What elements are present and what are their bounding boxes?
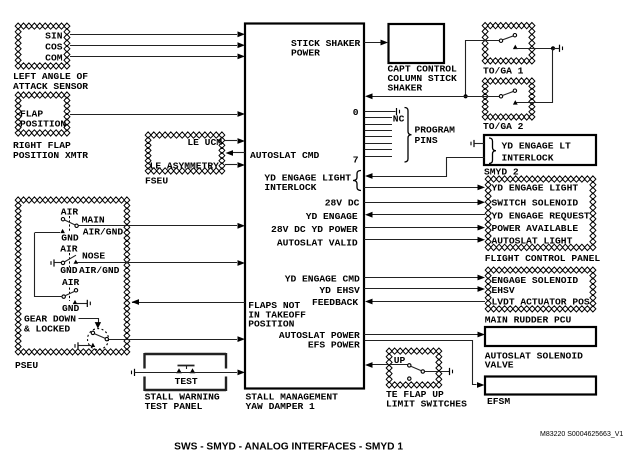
svg-text:TO/GA 2: TO/GA 2 <box>483 121 524 132</box>
svg-text:YD ENGAGE LIGHT: YD ENGAGE LIGHT <box>492 183 579 194</box>
wire 28V DC to FCP switch solenoid <box>364 202 478 204</box>
port smyd2 interlock <box>473 140 475 147</box>
svg-text:SIN: SIN <box>45 31 63 42</box>
svg-text:POSITION XMTR: POSITION XMTR <box>13 150 88 161</box>
wire yd engage light to FCP <box>364 187 478 189</box>
svg-text:ATTACK SENSOR: ATTACK SENSOR <box>13 81 88 92</box>
wire LVDT actuator pos to SMYD1 <box>372 301 485 303</box>
wire TO/GA 1 pole down <box>466 41 500 97</box>
wire MAIN AIR/GND to SMYD1 <box>78 225 237 227</box>
svg-text:NC: NC <box>393 114 405 125</box>
svg-text:AUTOSLAT LIGHT: AUTOSLAT LIGHT <box>492 236 573 247</box>
wire smyd2 interlock stub <box>474 143 484 145</box>
wire program pin 6 <box>365 149 393 151</box>
wire LE UCM to SMYD1 <box>225 140 237 142</box>
svg-text:GND: GND <box>60 265 78 276</box>
svg-text:COS: COS <box>45 42 63 53</box>
wire gnd bus PSEU <box>35 233 63 297</box>
wire AUTOSLAT CMD to FSEU <box>233 152 245 154</box>
svg-text:LE ASYMMETRY: LE ASYMMETRY <box>150 161 220 172</box>
wire S1 throw <box>64 220 75 225</box>
svg-text:TEST PANEL: TEST PANEL <box>145 401 203 412</box>
switch TE flap up <box>408 364 411 367</box>
arrow SIN into SMYD1 <box>238 31 246 37</box>
svg-text:AUTOSLAT VALID: AUTOSLAT VALID <box>277 238 358 249</box>
arrow COS into SMYD1 <box>238 42 246 48</box>
brace YD ENGAGE LIGHT INTERLOCK <box>353 171 361 191</box>
wire program pin 5 <box>365 143 393 145</box>
svg-text:28V DC YD POWER: 28V DC YD POWER <box>271 224 358 235</box>
pushbutton contact right <box>190 368 196 373</box>
wire TO/GA 1 to junction <box>515 48 551 50</box>
arrow S3 contact <box>73 300 78 304</box>
svg-text:POSITION: POSITION <box>248 319 294 330</box>
svg-text:FSEU: FSEU <box>145 176 168 187</box>
svg-text:AIR/GND: AIR/GND <box>83 227 124 238</box>
arrow into Q1 <box>95 322 101 329</box>
wire COS to SMYD1 <box>70 45 237 47</box>
arrow TO/GA 2 contact <box>513 100 518 105</box>
arrow into autoslat solenoid valve <box>478 332 486 338</box>
svg-text:AIR: AIR <box>62 277 80 288</box>
arrow gear down into SMYD1 <box>238 336 246 342</box>
svg-text:SWITCH SOLENOID: SWITCH SOLENOID <box>492 198 579 209</box>
wire NOSE AIR/GND to SMYD1 <box>77 262 237 264</box>
switch TO/GA 2 <box>499 95 502 98</box>
svg-text:YD ENGAGE REQUEST: YD ENGAGE REQUEST <box>492 211 590 222</box>
FSEU box <box>145 132 225 174</box>
svg-text:TO/GA 1: TO/GA 1 <box>483 66 524 77</box>
wire YD ENGAGE CMD to PCU <box>364 277 478 279</box>
arrow Q1 emitter <box>91 343 96 347</box>
brace program pins <box>405 108 412 163</box>
svg-text:YD ENGAGE: YD ENGAGE <box>306 211 358 222</box>
svg-text:EHSV: EHSV <box>492 285 515 296</box>
arrow into stick shaker <box>381 40 389 46</box>
pushbutton TEST <box>178 365 195 367</box>
junction TO/GA <box>551 46 555 50</box>
port TO/GA <box>559 45 561 52</box>
svg-text:M83220 S0004625663_V1: M83220 S0004625663_V1 <box>540 431 623 438</box>
port Q1 emitter <box>77 342 79 349</box>
arrow TEST into SMYD1 <box>238 370 246 376</box>
svg-text:0: 0 <box>353 107 359 118</box>
svg-text:YD ENGAGE LT: YD ENGAGE LT <box>502 141 572 152</box>
wire Q1 emitter <box>78 345 91 347</box>
wire gnd bus to S1 <box>35 232 60 234</box>
SMYD 2 yd engage lt interlock box <box>484 135 596 165</box>
svg-text:INTERLOCK: INTERLOCK <box>502 153 554 164</box>
flight control panel box <box>485 176 596 251</box>
wire TE FLAP UP to SMYD1 <box>372 364 408 366</box>
svg-text:VALVE: VALVE <box>485 360 514 371</box>
arrow into PCU ehsv <box>478 286 486 292</box>
right flap position xmtr box <box>15 92 70 136</box>
wire program pin 3 <box>365 130 393 132</box>
arrow FLAP POSITION into SMYD1 <box>238 111 246 117</box>
svg-text:SWS - SMYD - ANALOG INTERFACES: SWS - SMYD - ANALOG INTERFACES - SMYD 1 <box>174 441 403 452</box>
wire S3 throw <box>65 291 75 296</box>
arrow gnd S1 <box>60 229 65 233</box>
SMYD 1 stall management yaw damper computer block U1 <box>245 24 364 389</box>
wire 28V DC YD POWER to FCP <box>364 227 478 229</box>
svg-text:SMYD 2: SMYD 2 <box>484 167 519 178</box>
svg-text:GND: GND <box>61 233 79 244</box>
wire EFS POWER to EFSM <box>365 341 477 385</box>
arrow NOSE AIR/GND into SMYD1 <box>238 260 246 266</box>
svg-text:MAIN RUDDER PCU: MAIN RUDDER PCU <box>485 315 572 326</box>
svg-text:PSEU: PSEU <box>15 360 38 371</box>
svg-text:GND: GND <box>62 303 80 314</box>
wire program pin 1 <box>365 117 393 119</box>
wire AUTOSLAT POWER to valve <box>364 334 478 336</box>
svg-text:LIMIT SWITCHES: LIMIT SWITCHES <box>386 399 467 410</box>
svg-text:FLIGHT CONTROL PANEL: FLIGHT CONTROL PANEL <box>485 253 601 264</box>
port TE flap up <box>449 368 451 375</box>
wire S2 throw <box>64 255 76 262</box>
pushbutton contact left <box>176 368 182 373</box>
arrow into EFSM <box>477 382 485 388</box>
wire FLAP POSITION to SMYD1 <box>70 114 237 116</box>
arrow LE ASYMMETRY into SMYD1 <box>238 162 246 168</box>
svg-text:AIR: AIR <box>60 244 78 255</box>
arrow into FCP autoslat light <box>478 237 486 243</box>
arrow TE flap up into SMYD1 <box>365 362 373 368</box>
svg-text:FEEDBACK: FEEDBACK <box>312 297 358 308</box>
arrow into PSEU <box>132 299 140 305</box>
svg-text:& LOCKED: & LOCKED <box>24 324 70 335</box>
svg-text:YD ENGAGE CMD: YD ENGAGE CMD <box>285 274 360 285</box>
wire program pin 7 <box>365 156 393 158</box>
capt control column stick shaker box <box>389 24 445 63</box>
wire TE flap to port <box>425 371 450 373</box>
svg-text:POWER: POWER <box>291 48 320 59</box>
EFSM box <box>485 377 596 395</box>
svg-text:MAIN: MAIN <box>82 215 105 226</box>
wire FLAPS NOT IN TAKEOFF to PSEU <box>132 302 245 304</box>
svg-text:SHAKER: SHAKER <box>388 83 423 94</box>
svg-text:AIR: AIR <box>61 207 79 218</box>
wire program pin 4 <box>365 136 393 138</box>
svg-text:AUTOSLAT CMD: AUTOSLAT CMD <box>250 150 320 161</box>
PSEU box <box>15 197 130 355</box>
svg-text:EFSM: EFSM <box>487 396 510 407</box>
TO/GA 1 box <box>482 23 535 65</box>
svg-text:NOSE: NOSE <box>82 251 105 262</box>
arrow into PCU engage solenoid <box>478 275 486 281</box>
svg-text:7: 7 <box>353 155 359 166</box>
wire TEST to SMYD1 <box>135 372 238 374</box>
wire GEAR DOWN to Q1 <box>79 319 99 325</box>
wire AUTOSLAT VALID to FCP <box>364 239 478 241</box>
arrow MAIN AIR/GND into SMYD1 <box>238 223 246 229</box>
arrow yd engage into SMYD1 <box>365 212 373 218</box>
svg-text:EFS POWER: EFS POWER <box>308 340 360 351</box>
svg-text:TEST: TEST <box>175 376 198 387</box>
wire COM to SMYD1 <box>70 56 237 58</box>
wire junction to TO/GA 2 <box>517 49 553 103</box>
arrow AUTOSLAT CMD into FSEU <box>226 150 234 156</box>
wire program pin 0 <box>365 111 396 113</box>
autoslat solenoid valve box <box>485 327 596 346</box>
arrow S2 contact <box>74 260 79 264</box>
arrow TO/GA into SMYD1 <box>365 93 373 99</box>
port S3 gnd <box>86 300 88 307</box>
port NC pin 0 <box>396 108 398 115</box>
wire yd engage light interlock from SMYD1 <box>373 158 485 177</box>
svg-text:LVDT ACTUATOR POS: LVDT ACTUATOR POS <box>492 297 590 308</box>
wire gear down and locked to SMYD1 <box>109 339 238 341</box>
svg-text:LE UCM: LE UCM <box>187 137 222 148</box>
wire S3 gnd stub <box>77 303 87 305</box>
svg-text:INTERLOCK: INTERLOCK <box>264 182 316 193</box>
brace yd engage lt interlock <box>489 138 496 164</box>
wire YD EHSV to PCU <box>364 288 478 290</box>
main rudder PCU box <box>485 267 596 312</box>
svg-text:YD EHSV: YD EHSV <box>319 285 360 296</box>
arrow LE UCM into SMYD1 <box>238 138 246 144</box>
arrow feedback into SMYD1 <box>365 299 373 305</box>
wire program pin 2 <box>365 124 393 126</box>
svg-text:PROGRAM: PROGRAM <box>415 125 456 136</box>
wire TO/GA to SMYD1 <box>372 96 499 98</box>
port test panel <box>134 369 136 376</box>
arrow into FCP switch solenoid <box>478 199 486 205</box>
svg-text:POWER AVAILABLE: POWER AVAILABLE <box>492 223 579 234</box>
svg-text:COM: COM <box>45 53 63 64</box>
left angle of attack sensor box <box>15 23 70 69</box>
switch TO/GA 1 <box>499 39 502 42</box>
wire yd engage request to SMYD1 <box>372 214 485 216</box>
TO/GA 2 box <box>482 78 535 120</box>
wire LE ASYMMETRY to SMYD1 <box>225 164 237 166</box>
arrow COM into SMYD1 <box>238 54 246 60</box>
svg-text:PINS: PINS <box>415 135 438 146</box>
transistor Q1 gear down and locked (dotted circle) <box>88 329 109 350</box>
port S2 pole <box>53 259 55 266</box>
svg-text:YAW DAMPER 1: YAW DAMPER 1 <box>246 401 316 412</box>
svg-text:AIR/GND: AIR/GND <box>79 265 120 276</box>
TE flap up limit switches box <box>386 348 442 388</box>
arrow interlock into SMYD1 <box>365 173 373 179</box>
svg-text:28V DC: 28V DC <box>325 198 360 209</box>
wire STICK SHAKER POWER <box>364 42 381 44</box>
arrow into FCP yd engage light <box>478 185 486 191</box>
wire SIN to SMYD1 <box>70 34 237 36</box>
junction TO/GA poles <box>464 94 468 98</box>
svg-text:POSITION: POSITION <box>20 119 66 130</box>
arrow TO/GA 1 contact <box>513 45 518 50</box>
stall warning test panel box <box>145 353 227 355</box>
arrow into FCP power available <box>478 225 486 231</box>
